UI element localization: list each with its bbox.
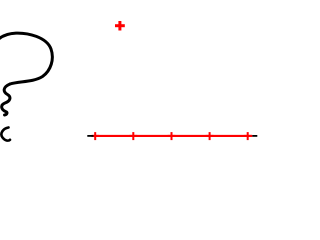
black data line right end	[252, 135, 257, 137]
curve segment: squiggly tail along left edge	[2, 84, 10, 115]
curve segment: bottom-left hook	[1, 128, 10, 141]
black data line left end	[87, 135, 93, 137]
red plus markers on line	[91, 132, 251, 140]
curve segment: big dome arc at left	[0, 33, 52, 84]
red data line	[92, 135, 252, 137]
top red plus marker	[115, 21, 125, 31]
